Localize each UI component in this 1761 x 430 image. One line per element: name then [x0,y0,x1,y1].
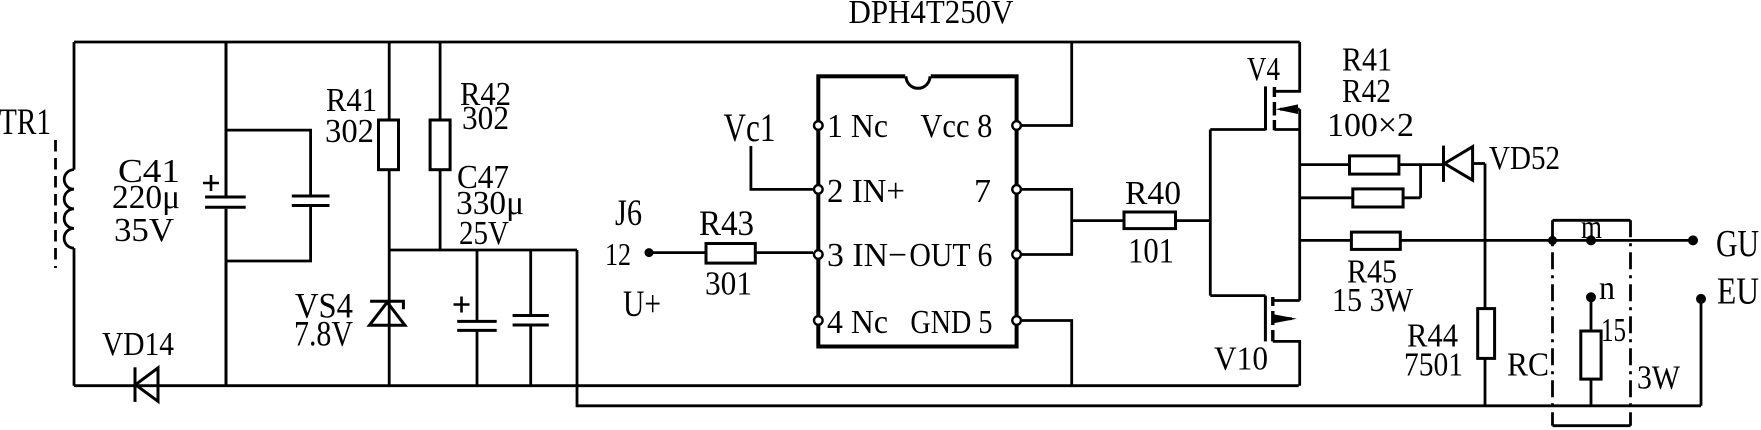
transformer TR1 [56,140,75,268]
pin 4 [814,316,823,325]
pin 7 [1012,185,1021,194]
resistor R42b [1300,165,1421,207]
wire pin7-pin6 junction [1022,189,1072,254]
resistor Rn 15 3W [1581,297,1601,406]
svg-text:DPH4T250V: DPH4T250V [849,0,1014,31]
svg-text:1 Nc: 1 Nc [827,108,888,145]
pin 3 [814,250,823,259]
node EU [1696,294,1706,304]
wire pin8 to rail [1022,42,1072,126]
node n [1586,292,1596,302]
svg-text:7501: 7501 [1404,347,1463,384]
node J6 terminal [645,248,654,257]
wire bottom rail [74,384,1299,387]
IC U1 DPH4T250V [818,73,1016,346]
wire V4 source bus [1298,109,1301,300]
pin 5 [1012,316,1021,325]
svg-text:302: 302 [462,100,509,137]
svg-text:3W: 3W [1637,360,1681,397]
capacitor C41b (parallel branch) [226,130,330,261]
svg-text:7.8V: 7.8V [294,314,353,354]
resistor R44 [1478,164,1495,406]
svg-text:J6: J6 [615,193,642,234]
svg-text:R43: R43 [699,203,754,243]
wire top rail [74,41,1300,44]
resistor R42 [430,42,450,250]
wire mid horizontal [389,249,577,252]
svg-text:VD14: VD14 [102,326,174,363]
svg-text:7: 7 [974,173,991,210]
svg-text:3 IN−: 3 IN− [827,237,907,274]
pin 8 [1012,121,1021,130]
svg-text:V4: V4 [1247,51,1280,88]
wire gate bus [1209,130,1212,296]
svg-text:V10: V10 [1214,341,1268,378]
svg-text:OUT 6: OUT 6 [909,237,992,274]
diode VD52 [1444,146,1486,182]
zener VS4 [369,301,405,325]
svg-text:n: n [1599,270,1615,307]
wire lower bottom rail [577,250,1701,406]
svg-text:100×2: 100×2 [1327,107,1414,144]
resistor R41b [1300,156,1444,174]
pin 6 [1012,250,1021,259]
diode VD14 [135,367,158,402]
svg-text:EU: EU [1717,271,1759,313]
svg-text:Vc1: Vc1 [724,105,776,150]
svg-text:301: 301 [705,266,752,303]
wire pin5 to ground rail [1022,321,1072,386]
resistor R45 [1300,232,1693,249]
svg-text:GND 5: GND 5 [910,304,992,341]
capacitor C41 [203,42,246,386]
wire EU riser [1700,299,1703,406]
svg-text:4 Nc: 4 Nc [827,304,888,341]
box RC dashed [1553,220,1631,425]
svg-text:15: 15 [1601,312,1626,349]
capacitor C47b [513,250,549,386]
node GU [1688,235,1698,245]
node box-left junction [1548,236,1557,245]
svg-text:RC: RC [1507,347,1549,384]
svg-text:12: 12 [605,236,631,272]
svg-text:220μ: 220μ [112,179,180,216]
resistor R43 [649,244,813,264]
capacitor C47 [454,250,497,386]
transistor V10 [1210,296,1299,386]
wire left vertical [73,42,76,386]
svg-text:R40: R40 [1125,175,1181,212]
svg-text:25V: 25V [459,215,509,252]
resistor R41 [379,42,399,386]
svg-text:2 IN+: 2 IN+ [827,173,905,210]
svg-text:m: m [1581,209,1602,246]
svg-text:35V: 35V [114,212,174,249]
svg-text:GU: GU [1716,223,1759,265]
resistor R40 [1072,212,1211,229]
node Vc1 [751,146,813,189]
pin 1 [814,121,823,130]
svg-text:TR1: TR1 [0,102,51,143]
node m [1586,235,1596,245]
pin 2 [814,185,823,194]
svg-text:U+: U+ [623,284,661,325]
svg-text:302: 302 [325,113,374,150]
svg-text:15 3W: 15 3W [1332,282,1414,319]
transistor V4 [1210,42,1299,130]
svg-text:101: 101 [1128,231,1174,271]
svg-text:Vcc 8: Vcc 8 [920,108,992,145]
svg-text:VD52: VD52 [1489,140,1560,177]
svg-text:R42: R42 [1342,73,1391,110]
